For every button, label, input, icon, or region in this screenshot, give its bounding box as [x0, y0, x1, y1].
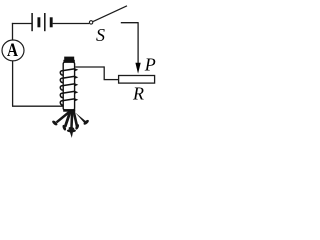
ammeter A circle	[2, 40, 24, 61]
switch lever	[93, 6, 127, 22]
nail 1 (down-left)	[51, 111, 70, 127]
turn 3	[60, 84, 74, 90]
wire ammeter down left side	[12, 61, 14, 106]
switch pivot circle	[89, 21, 92, 24]
nail 5 (down-right)	[73, 110, 89, 125]
turn 1	[60, 69, 74, 75]
battery plate short thick 2	[50, 17, 53, 27]
wire bottom horizontal to coil	[12, 105, 63, 107]
turn 5	[60, 99, 74, 105]
nail 4 (down, right lean)	[72, 111, 79, 130]
turn 4	[60, 91, 74, 97]
wire jog to rheostat left terminal	[104, 79, 119, 81]
bobbin bottom dark edge	[63, 109, 75, 111]
turn 2	[60, 76, 74, 82]
svg-text:R: R	[132, 84, 144, 104]
battery plate long 1	[31, 13, 33, 31]
nail 6 (bottom vertical)	[67, 129, 76, 138]
wire left vertical to ammeter	[12, 23, 14, 40]
battery plate short thick 1	[37, 17, 40, 27]
wire coil to rheostat: horizontal top	[75, 66, 104, 68]
wire right vertical arrow shaft	[137, 22, 139, 64]
nail 3 (down middle)	[68, 111, 74, 130]
svg-text:S: S	[96, 25, 105, 45]
coil winding turns	[60, 68, 78, 105]
nail 2 (down, left lean)	[62, 111, 72, 131]
wire vertical jog	[103, 66, 105, 79]
wire top-left horizontal	[12, 23, 32, 25]
svg-text:A: A	[7, 40, 18, 61]
electromagnet core cap (black)	[64, 57, 74, 61]
arrowhead onto slider P	[135, 63, 140, 74]
battery plate long 2	[44, 13, 46, 31]
rheostat R body	[119, 76, 155, 84]
wire battery to switch	[53, 23, 90, 25]
svg-text:P: P	[144, 54, 156, 74]
electromagnet bobbin	[63, 62, 74, 110]
wire switch fixed contact to corner	[121, 22, 138, 24]
